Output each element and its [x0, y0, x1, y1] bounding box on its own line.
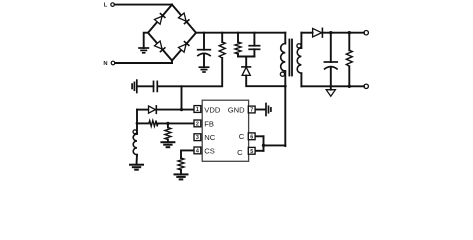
svg-text:VDD: VDD: [204, 106, 221, 115]
svg-text:6: 6: [250, 134, 253, 140]
svg-text:4: 4: [196, 148, 199, 154]
svg-text:CS: CS: [204, 147, 215, 156]
svg-text:7: 7: [250, 108, 253, 114]
svg-text:2: 2: [196, 121, 199, 127]
svg-text:L: L: [104, 3, 108, 9]
svg-text:FB: FB: [204, 119, 214, 128]
svg-text:5: 5: [250, 149, 253, 155]
svg-text:C: C: [237, 148, 243, 157]
svg-text:NC: NC: [204, 133, 215, 142]
svg-text:N: N: [103, 61, 107, 67]
svg-text:GND: GND: [228, 106, 245, 115]
svg-text:C: C: [239, 132, 245, 141]
svg-text:1: 1: [196, 107, 199, 113]
svg-text:3: 3: [196, 135, 199, 141]
